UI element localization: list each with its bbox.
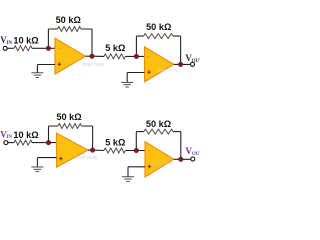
svg-text:Smart-Study: Smart-Study xyxy=(82,62,104,67)
svg-text:50 kΩ: 50 kΩ xyxy=(146,119,171,129)
svg-text:5 kΩ: 5 kΩ xyxy=(105,137,125,147)
svg-text:Smart-Study: Smart-Study xyxy=(157,68,179,73)
svg-text:Smart-Study: Smart-Study xyxy=(75,155,97,160)
svg-text:50 kΩ: 50 kΩ xyxy=(56,112,81,122)
svg-text:Smart-Study: Smart-Study xyxy=(150,161,172,166)
svg-text:10 kΩ: 10 kΩ xyxy=(13,35,38,45)
svg-text:50 kΩ: 50 kΩ xyxy=(56,15,81,25)
svg-text:10 kΩ: 10 kΩ xyxy=(13,130,38,140)
svg-text:5 kΩ: 5 kΩ xyxy=(105,43,125,53)
svg-text:50 kΩ: 50 kΩ xyxy=(146,22,171,32)
